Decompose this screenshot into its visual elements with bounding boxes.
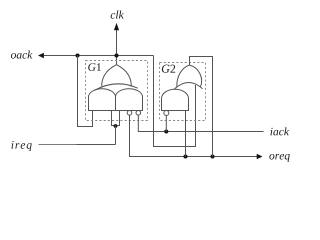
- bubble G1 right AND inverted input 1: [127, 111, 132, 116]
- gate G1 right AND: [116, 89, 143, 111]
- wire: U joining G1 middle inputs (ireq): [112, 111, 120, 126]
- node oack arrow head: [38, 53, 44, 58]
- wire: clk output vertical from G1 OR apex: [116, 30, 118, 65]
- gate G1 OR base arc: [95, 84, 138, 90]
- label G2: [162, 65, 175, 73]
- label oreq: [269, 154, 289, 162]
- node oreq arrow head: [257, 154, 263, 159]
- wire: G2 bubble to iack line: [165, 116, 167, 132]
- wire: G2 output loop around to oreq: [190, 57, 213, 157]
- gate G2 OR base arc: [174, 82, 202, 89]
- wire: G1 bubble1 down to oreq line: [130, 115, 258, 156]
- junction dot ireq node: [114, 124, 118, 128]
- wire: ireq horizontal: [77, 144, 116, 146]
- G2 dashed box: [160, 63, 206, 121]
- wire: ireq vertical: [115, 126, 117, 145]
- label G1: [88, 63, 101, 71]
- junction dot G2 AND input2 on oreq: [183, 154, 187, 158]
- junction dot oack feedback tap: [75, 53, 79, 57]
- junction dot G2 output loop on oreq: [210, 154, 214, 158]
- gate G1 OR right side: [117, 65, 132, 87]
- label iack: [270, 127, 289, 135]
- gate G1 left AND: [89, 89, 116, 111]
- junction dot G2 bubble input on iack: [164, 129, 168, 133]
- wire: G2 AND input2 down to oreq line: [185, 111, 187, 157]
- label ireq: [11, 141, 31, 151]
- wire: G1 bubble2 down then right to iack: [138, 115, 263, 131]
- wire: clk/oack net top horizontal: [44, 55, 154, 57]
- label clk: [111, 11, 124, 19]
- gate G2 OR right side: [190, 65, 202, 87]
- bubble G2 AND inverted input: [164, 111, 169, 116]
- wire: right feedback from oack line around to G2 OR direct input: [154, 56, 196, 147]
- junction dot clk tap: [114, 53, 118, 57]
- wire: ireq horizontal lead (lighter): [39, 144, 77, 146]
- gate G2 OR left side: [177, 65, 190, 87]
- gate G1 OR left side: [102, 65, 117, 87]
- label oack: [11, 51, 33, 59]
- G1 dashed box: [86, 61, 148, 121]
- node clk arrow head: [114, 23, 119, 30]
- bubble G1 right AND inverted input 2: [136, 111, 141, 116]
- wire: left feedback down into G1 left AND input: [78, 56, 93, 127]
- gate G2 AND: [162, 89, 189, 110]
